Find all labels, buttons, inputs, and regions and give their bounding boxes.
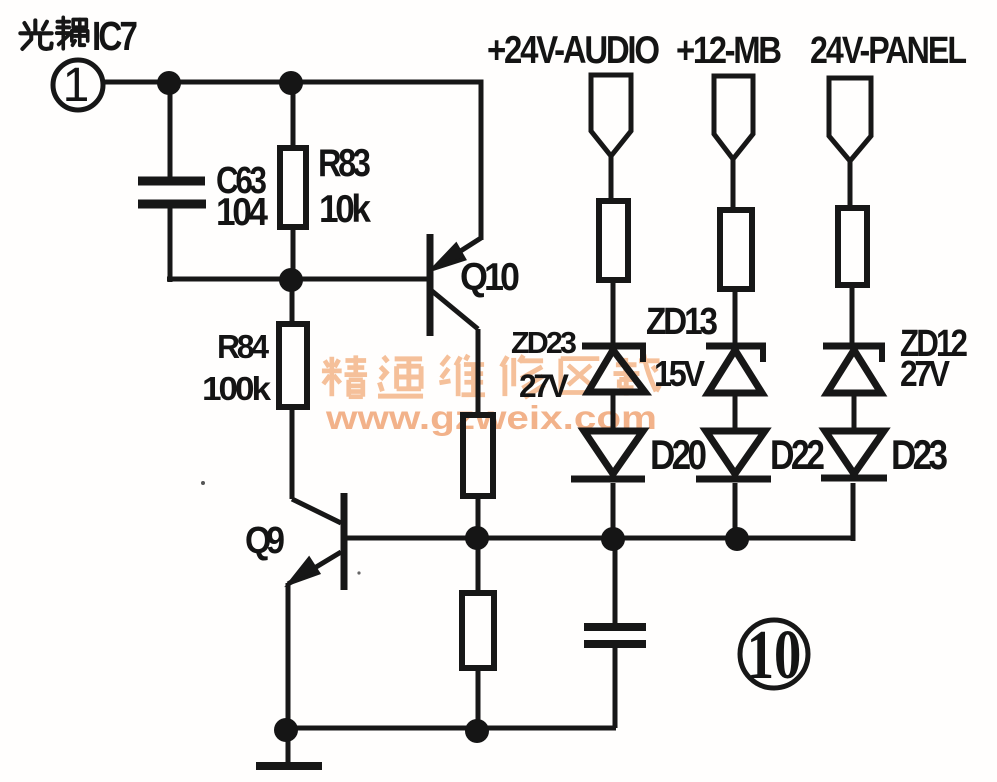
diode D20 bbox=[571, 431, 645, 479]
wm char xiu bbox=[501, 355, 544, 397]
svg-text:ZD23: ZD23 bbox=[511, 326, 577, 360]
wire filter cap bottom lead bbox=[613, 648, 618, 728]
wm char tong bbox=[378, 356, 423, 396]
wm char qu bbox=[561, 359, 600, 393]
wire mid bus (Q9 base node) bbox=[347, 536, 855, 541]
svg-text:27V: 27V bbox=[519, 368, 570, 404]
wire bottom lead to ground bus bbox=[476, 668, 481, 731]
svg-text:ZD13: ZD13 bbox=[646, 300, 718, 342]
svg-text:10k: 10k bbox=[319, 186, 371, 230]
svg-text:10: 10 bbox=[747, 616, 802, 694]
scan speck bbox=[201, 481, 205, 485]
svg-text:104: 104 bbox=[216, 189, 268, 233]
terminal circle node 1 (optocoupler IC7 pin 1) bbox=[53, 60, 103, 110]
resistor body (unlabeled, +12-MB branch) bbox=[720, 210, 752, 289]
wire lower lead to mid bus bbox=[476, 496, 481, 539]
node dot gnd bbox=[274, 718, 298, 742]
figure number circle 10 bbox=[740, 620, 808, 688]
wire down to ZD13 bbox=[733, 289, 738, 345]
svg-text:+24V-AUDIO: +24V-AUDIO bbox=[487, 27, 660, 71]
node dot bottom bbox=[465, 719, 489, 743]
wire down to ZD23 bbox=[611, 280, 616, 345]
wire +12-MB connector to resistor bbox=[731, 159, 736, 210]
svg-text:24V-PANEL: 24V-PANEL bbox=[810, 30, 967, 72]
node dot bus 3 bbox=[725, 527, 749, 551]
char guang bbox=[20, 20, 51, 49]
connector symbol +12-MB bbox=[714, 76, 753, 159]
wire D20 to mid bus bbox=[611, 483, 616, 539]
node dot mid bbox=[279, 268, 303, 292]
resistor body (unlabeled, lower divider) bbox=[462, 593, 494, 668]
svg-text:15V: 15V bbox=[654, 354, 705, 394]
wire D22 to mid bus bbox=[733, 483, 738, 539]
diode D22 bbox=[696, 431, 771, 479]
svg-text:R84: R84 bbox=[217, 327, 269, 365]
wire ZD23 to D20 bbox=[611, 392, 616, 430]
svg-text:1: 1 bbox=[63, 59, 90, 112]
wire Q9 emitter down to ground bus bbox=[286, 583, 291, 730]
wire ZD12 to D23 bbox=[852, 393, 857, 430]
wire R83 bottom lead bbox=[291, 227, 296, 279]
zener diode ZD12 27V bbox=[823, 346, 885, 393]
resistor body (unlabeled, +24V-AUDIO branch) bbox=[599, 201, 628, 280]
resistor body (unlabeled, Q10 collector load) bbox=[463, 415, 493, 496]
ground symbol bar bbox=[256, 762, 322, 770]
label figure 10 bbox=[747, 616, 802, 694]
node dot bus 1 bbox=[465, 526, 489, 550]
wire riser from mid bus up to D23 bbox=[851, 483, 856, 541]
wire C63 bottom lead bbox=[168, 208, 173, 282]
svg-text:27V: 27V bbox=[900, 354, 950, 394]
connector symbol +24V-AUDIO bbox=[591, 75, 631, 156]
capacitor plates (unlabeled, on mid bus) bbox=[584, 627, 646, 644]
wire ZD13 to D22 bbox=[733, 393, 738, 430]
node dot top B bbox=[279, 71, 303, 95]
wire bottom ground bus bbox=[286, 726, 616, 731]
capacitor C63 plates bbox=[138, 181, 206, 204]
wire 24V-PANEL connector to resistor bbox=[848, 161, 853, 208]
wm char jing bbox=[322, 355, 367, 396]
diode D23 bbox=[821, 431, 887, 478]
wire filter cap top lead bbox=[613, 539, 618, 623]
scan speck bbox=[357, 571, 360, 574]
wire R83 top lead bbox=[291, 82, 296, 148]
wire down to ZD12 bbox=[850, 285, 855, 345]
wire top lead of lower resistor bbox=[476, 538, 481, 593]
zener diode ZD23 27V bbox=[582, 346, 646, 392]
zener diode ZD13 15V bbox=[706, 346, 766, 393]
svg-text:D23: D23 bbox=[891, 432, 948, 479]
svg-text:+12-MB: +12-MB bbox=[676, 29, 782, 72]
wire R84 top lead bbox=[290, 279, 295, 324]
svg-text:Q9: Q9 bbox=[245, 519, 285, 561]
wire R84 bottom lead to Q9 collector bbox=[290, 407, 295, 499]
wire C63 top lead bbox=[168, 82, 173, 178]
wire top rail from node 1 to Q10 emitter drop bbox=[104, 82, 481, 240]
svg-text:D22: D22 bbox=[770, 432, 825, 479]
svg-text:IC7: IC7 bbox=[92, 13, 138, 59]
char ou bbox=[57, 17, 88, 48]
svg-text:100k: 100k bbox=[202, 371, 272, 408]
ground symbol stem bbox=[286, 730, 291, 763]
wire +24V-AUDIO connector to resistor bbox=[609, 156, 614, 201]
svg-text:D20: D20 bbox=[650, 432, 707, 479]
connector symbol 24V-PANEL bbox=[829, 78, 871, 161]
resistor body (unlabeled, 24V-PANEL branch) bbox=[838, 208, 867, 285]
wire Q10 base rail bbox=[167, 277, 427, 282]
wire upper lead of resistor under Q10 bbox=[476, 329, 481, 415]
resistor R83 body bbox=[280, 148, 306, 227]
node dot top A bbox=[157, 71, 181, 95]
svg-text:R83: R83 bbox=[318, 140, 371, 185]
transistor Q9 (NPN) bbox=[288, 493, 344, 590]
resistor R84 body bbox=[279, 324, 307, 407]
svg-text:Q10: Q10 bbox=[460, 255, 520, 299]
wm char wei bbox=[439, 355, 485, 396]
node dot bus 2 bbox=[601, 527, 625, 551]
wm char zai bbox=[613, 354, 659, 395]
transistor Q10 (PNP) bbox=[430, 234, 481, 336]
